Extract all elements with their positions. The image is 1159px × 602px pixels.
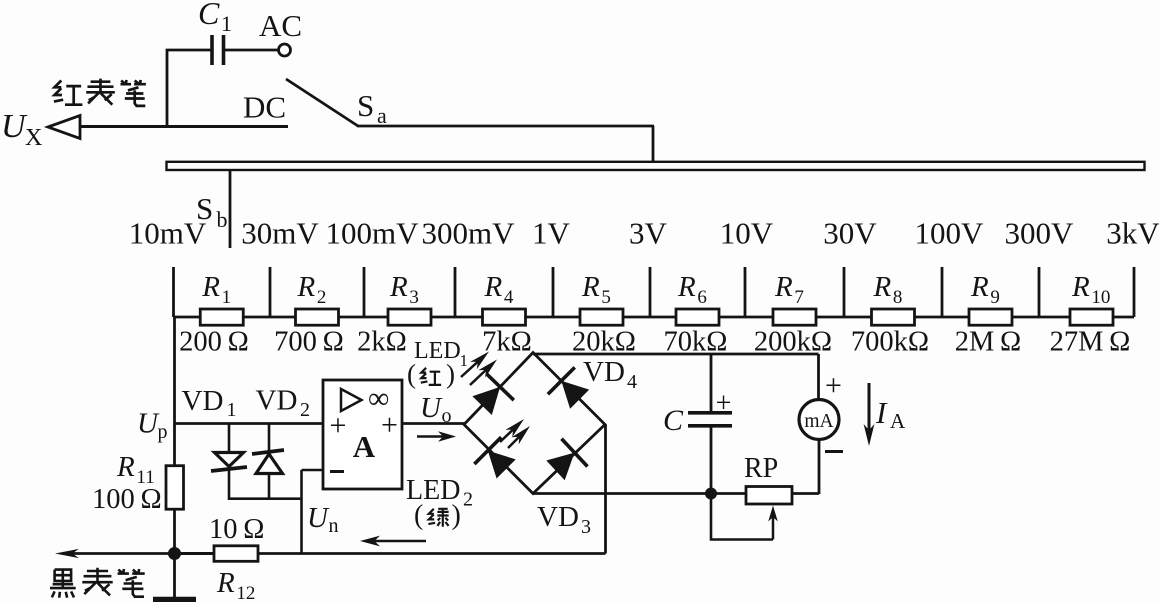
- svg-text:mA: mA: [804, 411, 833, 432]
- svg-text:R: R: [581, 271, 600, 303]
- svg-text:b: b: [217, 207, 228, 232]
- svg-text:R: R: [201, 271, 220, 303]
- svg-text:1: 1: [227, 399, 237, 421]
- svg-text:12: 12: [236, 583, 255, 602]
- svg-text:27M Ω: 27M Ω: [1050, 327, 1131, 358]
- svg-text:R: R: [389, 271, 408, 303]
- svg-text:+: +: [381, 409, 398, 442]
- svg-text:C: C: [198, 0, 220, 31]
- svg-text:+: +: [330, 409, 347, 442]
- svg-text:): ): [446, 359, 455, 389]
- svg-text:700 Ω: 700 Ω: [274, 327, 344, 358]
- svg-text:R: R: [1071, 271, 1090, 303]
- svg-text:(: (: [407, 359, 416, 389]
- svg-text:o: o: [442, 405, 452, 427]
- svg-text:VD: VD: [583, 356, 625, 388]
- svg-text:R: R: [297, 271, 316, 303]
- svg-text:700kΩ: 700kΩ: [851, 327, 929, 358]
- svg-text:10: 10: [1091, 287, 1110, 308]
- svg-text:I: I: [875, 395, 888, 430]
- svg-text:7: 7: [794, 287, 804, 308]
- svg-text:7kΩ: 7kΩ: [482, 327, 532, 358]
- svg-text:1: 1: [460, 351, 469, 370]
- svg-text:R: R: [216, 567, 235, 599]
- svg-text:100mV: 100mV: [326, 216, 420, 251]
- svg-text:9: 9: [990, 287, 1000, 308]
- svg-text:10V: 10V: [720, 216, 774, 251]
- svg-text:RP: RP: [744, 453, 778, 484]
- svg-text:2M Ω: 2M Ω: [955, 327, 1021, 358]
- svg-text:300mV: 300mV: [422, 216, 516, 251]
- svg-text:2: 2: [463, 489, 473, 511]
- svg-text:R: R: [774, 271, 793, 303]
- svg-text:n: n: [329, 515, 339, 537]
- svg-text:R: R: [677, 271, 696, 303]
- svg-text:300V: 300V: [1005, 216, 1075, 251]
- svg-text:R: R: [873, 271, 892, 303]
- svg-text:4: 4: [504, 287, 514, 308]
- svg-text:A: A: [353, 429, 376, 464]
- svg-text:R: R: [116, 451, 135, 483]
- svg-text:3: 3: [581, 516, 591, 538]
- svg-text:C: C: [663, 404, 684, 437]
- svg-text:200 Ω: 200 Ω: [179, 327, 249, 358]
- svg-text:3: 3: [409, 287, 419, 308]
- svg-text:100 Ω: 100 Ω: [92, 484, 162, 515]
- svg-text:VD: VD: [256, 385, 298, 417]
- svg-text:AC: AC: [259, 8, 302, 43]
- svg-text:X: X: [25, 125, 42, 151]
- svg-text:5: 5: [601, 287, 611, 308]
- svg-text:VD: VD: [182, 385, 224, 417]
- svg-text:p: p: [158, 421, 168, 443]
- svg-text:30V: 30V: [823, 216, 877, 251]
- svg-text:6: 6: [697, 287, 707, 308]
- svg-text:): ): [452, 500, 461, 531]
- svg-text:S: S: [357, 88, 374, 123]
- svg-text:4: 4: [627, 371, 637, 393]
- svg-text:100V: 100V: [915, 216, 985, 251]
- svg-text:3kV: 3kV: [1106, 216, 1159, 251]
- svg-text:a: a: [377, 103, 387, 128]
- svg-text:1: 1: [221, 11, 232, 36]
- svg-text:3V: 3V: [629, 216, 668, 251]
- svg-text:R: R: [970, 271, 989, 303]
- svg-text:+: +: [716, 388, 732, 419]
- svg-text:2kΩ: 2kΩ: [357, 327, 407, 358]
- svg-text:R: R: [484, 271, 503, 303]
- svg-text:A: A: [890, 409, 906, 433]
- svg-text:U: U: [1, 108, 28, 145]
- svg-text:2: 2: [317, 287, 327, 308]
- svg-text:VD: VD: [537, 501, 579, 533]
- svg-text:30mV: 30mV: [241, 216, 319, 251]
- svg-text:10mV: 10mV: [129, 216, 207, 251]
- svg-text:2: 2: [300, 399, 310, 421]
- svg-text:1: 1: [222, 287, 232, 308]
- svg-text:U: U: [307, 502, 330, 534]
- svg-text:+: +: [825, 369, 842, 402]
- svg-text:8: 8: [893, 287, 903, 308]
- svg-text:(: (: [414, 500, 423, 531]
- svg-text:1V: 1V: [532, 216, 571, 251]
- svg-text:10 Ω: 10 Ω: [209, 514, 264, 545]
- svg-text:U: U: [420, 392, 443, 424]
- svg-text:DC: DC: [243, 90, 286, 125]
